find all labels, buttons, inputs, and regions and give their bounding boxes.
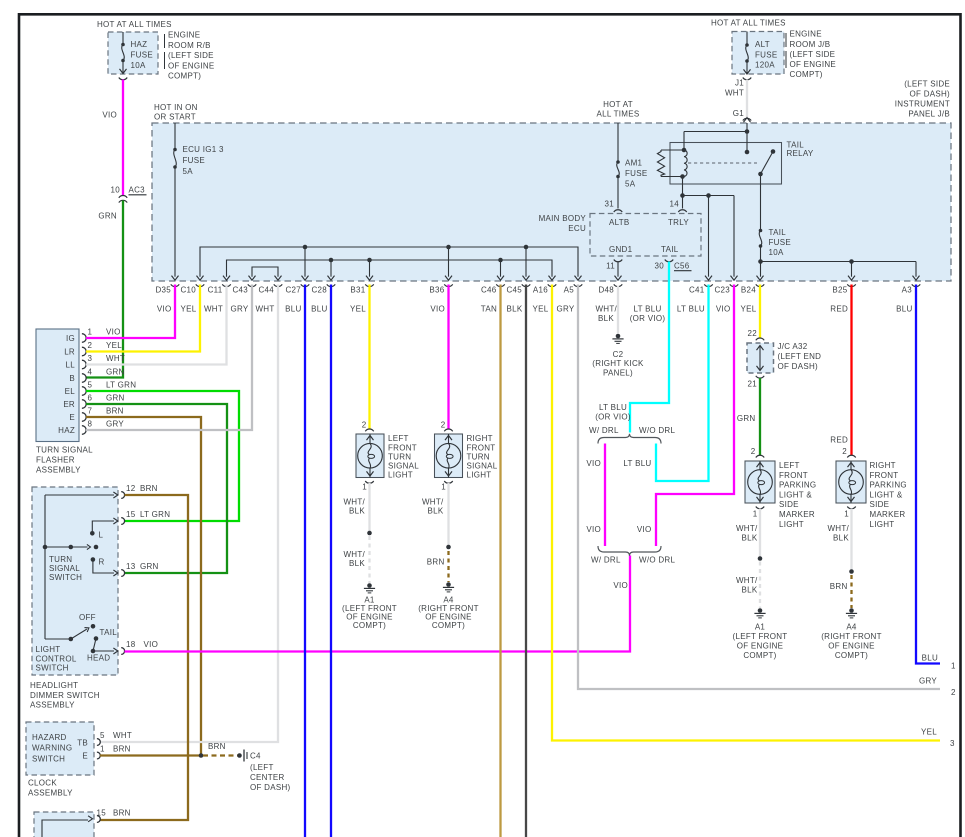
svg-text:FRONT: FRONT	[779, 471, 808, 480]
svg-text:HAZ: HAZ	[131, 40, 148, 49]
svg-text:B24: B24	[741, 286, 756, 295]
svg-text:J1: J1	[735, 79, 744, 88]
svg-text:BLK: BLK	[742, 534, 758, 543]
wire WHT/BLK left parking	[759, 509, 761, 557]
clock inner conductor	[42, 816, 93, 837]
svg-text:LR: LR	[64, 348, 75, 357]
wire YEL A16 out	[552, 285, 940, 741]
wire WHT/BLK right turn	[447, 483, 449, 545]
label A4 right turn	[418, 596, 479, 631]
connector C10	[180, 276, 204, 314]
svg-text:TAIL: TAIL	[769, 228, 787, 237]
svg-text:OF DASH): OF DASH)	[778, 362, 819, 371]
label W/O DRL lower	[639, 556, 675, 565]
svg-text:C11: C11	[208, 286, 223, 295]
svg-text:OF ENGINE: OF ENGINE	[737, 642, 784, 651]
svg-text:PARKING: PARKING	[779, 481, 816, 490]
connector D35	[155, 276, 179, 314]
svg-text:BRN: BRN	[106, 406, 124, 415]
label WHT/BLK right parking	[827, 524, 849, 543]
svg-text:LT BLU: LT BLU	[623, 459, 651, 468]
flasher box	[36, 329, 79, 442]
svg-text:BRN: BRN	[140, 484, 158, 493]
svg-text:5: 5	[88, 380, 93, 389]
junction connector J/C A32 box	[747, 343, 774, 373]
svg-text:COMPT): COMPT)	[743, 651, 776, 660]
label HAZ FUSE 10A	[131, 40, 153, 70]
wire VIO B36 to right turn light	[447, 285, 449, 429]
svg-text:C10: C10	[180, 286, 196, 295]
svg-text:YEL: YEL	[350, 305, 366, 314]
wire WHT/BLK dashed left parking	[759, 562, 761, 609]
label ALTB	[609, 218, 630, 227]
label WHT/BLK left parking	[736, 524, 758, 543]
svg-text:SIDE: SIDE	[779, 500, 799, 509]
lamp left front parking light	[745, 461, 775, 503]
label LEFT CENTER OF DASH	[250, 763, 291, 792]
svg-text:ER: ER	[63, 400, 75, 409]
label HAZARD WARNING SWITCH	[32, 733, 72, 764]
relay coil bottom link	[661, 174, 685, 179]
svg-text:C44: C44	[258, 286, 274, 295]
svg-text:RELAY: RELAY	[787, 149, 814, 158]
svg-text:COMPT): COMPT)	[835, 651, 868, 660]
bridge C43-C44	[252, 267, 278, 277]
svg-text:3: 3	[950, 739, 955, 748]
svg-text:WHT: WHT	[204, 305, 223, 314]
svg-text:YEL: YEL	[921, 728, 937, 737]
label 3 out	[950, 739, 955, 748]
svg-text:C4: C4	[250, 752, 261, 761]
label LIGHT CONTROL SWITCH	[36, 645, 77, 673]
label W/ DRL lower	[591, 556, 621, 565]
wire VIO C23 branch	[656, 285, 734, 547]
wire GRN flasher-ER to t/s switch 13	[86, 404, 227, 573]
svg-text:WHT/: WHT/	[736, 576, 758, 585]
label WHT/BLK D48	[595, 305, 617, 324]
label BRN right parking	[830, 582, 848, 591]
svg-text:AM1: AM1	[625, 159, 643, 168]
pin 2 left parking	[751, 447, 764, 458]
wire BLU C28	[330, 285, 332, 837]
svg-text:E: E	[82, 752, 88, 761]
pin 1 right turn light	[441, 481, 452, 492]
svg-text:BLK: BLK	[349, 507, 365, 516]
svg-text:8: 8	[88, 419, 93, 428]
svg-text:GRY: GRY	[556, 305, 574, 314]
svg-text:VIO: VIO	[144, 640, 159, 649]
svg-text:GRN: GRN	[106, 367, 125, 376]
svg-text:SWITCH: SWITCH	[36, 664, 69, 673]
dimmer switch box	[32, 487, 118, 675]
wire WHT J1 to G1	[746, 80, 748, 118]
svg-text:(LEFT SIDE: (LEFT SIDE	[168, 51, 214, 60]
flasher pin 8 HAZ	[58, 419, 124, 435]
svg-text:2: 2	[362, 421, 367, 430]
t/s switch blade	[43, 544, 99, 549]
svg-text:GRY: GRY	[230, 305, 248, 314]
junction dots bus1	[303, 245, 529, 250]
svg-text:AC3: AC3	[129, 186, 146, 195]
label ECU IG1 3 FUSE 5A	[183, 145, 224, 176]
label VIO w/DRL upper	[586, 459, 601, 468]
fuse TAIL 10A	[759, 229, 763, 248]
wire AM1 feed	[617, 123, 619, 209]
connector C11	[204, 276, 231, 314]
svg-text:1: 1	[88, 327, 93, 336]
bus2 drop B31	[369, 260, 371, 277]
splice left turn	[367, 531, 372, 536]
J/C A32 internal arrow	[757, 346, 764, 371]
label VIO w/o DRL lower	[637, 525, 652, 534]
svg-text:FUSE: FUSE	[183, 156, 205, 165]
label HOT AT ALL TIMES (AM1)	[597, 100, 640, 119]
pin 1 right parking	[844, 507, 855, 519]
label GRN	[98, 212, 117, 221]
svg-text:CLOCK: CLOCK	[28, 779, 57, 788]
svg-text:C56: C56	[674, 262, 690, 271]
svg-text:BLU: BLU	[311, 305, 327, 314]
svg-text:WHT/: WHT/	[343, 550, 365, 559]
svg-text:FUSE: FUSE	[131, 51, 153, 60]
connector C43	[230, 276, 256, 314]
wire RED B25 to right parking light	[850, 285, 852, 456]
svg-text:A3: A3	[902, 286, 913, 295]
wire BRN pin12 to clock 15	[100, 495, 188, 820]
svg-text:A4: A4	[846, 623, 857, 632]
svg-text:B31: B31	[350, 286, 365, 295]
fuse HAZ 10A	[120, 32, 127, 74]
svg-text:COMPT): COMPT)	[168, 72, 201, 81]
svg-text:PANEL): PANEL)	[603, 369, 633, 378]
svg-text:(LEFT END: (LEFT END	[778, 352, 822, 361]
svg-text:3: 3	[88, 354, 93, 363]
svg-text:WHT: WHT	[113, 731, 132, 740]
wire YEL B24 to J/C A32	[759, 285, 761, 338]
wire BRN hazard-E	[100, 754, 201, 756]
connector J1	[735, 78, 751, 88]
wire LT BLU C56 to DRL split	[630, 262, 669, 433]
connector C45	[506, 276, 530, 314]
label CLOCK ASSEMBLY	[28, 779, 73, 798]
svg-text:VIO: VIO	[586, 459, 601, 468]
svg-text:SIGNAL: SIGNAL	[467, 462, 498, 471]
label ALT FUSE 120A	[755, 40, 777, 70]
svg-text:ALL TIMES: ALL TIMES	[597, 110, 640, 119]
svg-text:10A: 10A	[769, 248, 784, 257]
svg-text:ECU IG1 3: ECU IG1 3	[183, 145, 224, 154]
bus1 drop B36	[448, 247, 450, 277]
bus2 drop C28	[330, 260, 332, 277]
label VIO	[102, 111, 117, 120]
pin TB	[77, 731, 132, 747]
svg-text:ECU: ECU	[568, 224, 586, 233]
svg-text:FUSE: FUSE	[769, 238, 791, 247]
svg-text:LT BLU: LT BLU	[677, 305, 705, 314]
svg-text:(LEFT SIDE: (LEFT SIDE	[790, 50, 836, 59]
label HOT AT ALL TIMES left	[97, 20, 172, 29]
svg-text:BLK: BLK	[742, 586, 758, 595]
svg-text:YEL: YEL	[181, 305, 197, 314]
label 1 out	[951, 662, 956, 671]
label TURN SIGNAL SWITCH	[49, 555, 82, 582]
svg-text:14: 14	[670, 200, 680, 209]
connector 10 AC3	[111, 186, 147, 203]
connector below HAZ fuse	[119, 78, 127, 80]
lamp left front turn signal light	[356, 434, 384, 478]
svg-text:GRN: GRN	[98, 212, 117, 221]
wire to pin 18	[93, 648, 118, 654]
svg-text:FLASHER: FLASHER	[36, 456, 75, 465]
svg-text:1: 1	[100, 745, 105, 754]
label LEFT FRONT PARKING LIGHT & SIDE MARKER LIGHT	[779, 461, 816, 529]
svg-text:ALTB: ALTB	[609, 218, 630, 227]
svg-text:ALT: ALT	[755, 40, 770, 49]
wire BRN dashed to C4	[203, 754, 238, 756]
svg-text:PANEL J/B: PANEL J/B	[908, 110, 950, 119]
svg-text:DIMMER SWITCH: DIMMER SWITCH	[30, 691, 100, 700]
svg-text:(OR VIO): (OR VIO)	[630, 314, 666, 323]
wire relay-coil branch line	[683, 193, 735, 198]
svg-text:VIO: VIO	[106, 327, 121, 336]
relay mechanical link	[688, 162, 757, 164]
ground A1 left parking	[754, 608, 765, 618]
svg-text:VIO: VIO	[637, 525, 652, 534]
svg-text:C45: C45	[506, 286, 522, 295]
contact HEAD	[87, 639, 110, 663]
svg-text:SWITCH: SWITCH	[49, 573, 82, 582]
connector A16	[533, 276, 557, 314]
svg-text:WHT: WHT	[106, 354, 125, 363]
label RED right parking	[830, 436, 848, 445]
drop to C23	[733, 196, 735, 277]
brace DRL split	[598, 434, 661, 444]
pin 1 left turn light	[362, 481, 373, 492]
svg-text:WHT/: WHT/	[343, 498, 365, 507]
flasher pin 6 ER	[63, 393, 124, 409]
svg-text:A5: A5	[564, 286, 575, 295]
svg-text:2: 2	[951, 688, 956, 697]
svg-text:BLK: BLK	[349, 559, 365, 568]
svg-text:10A: 10A	[131, 61, 146, 70]
relay box TAIL RELAY	[670, 143, 782, 185]
svg-text:10: 10	[111, 186, 121, 195]
junction dots bus2	[329, 258, 503, 263]
label TAIL FUSE 10A	[769, 228, 791, 257]
pin 30 TAIL C56	[655, 260, 692, 271]
pin 14 TRLY	[670, 200, 687, 213]
connector C28	[311, 276, 335, 314]
flasher pin 4 B	[69, 367, 124, 383]
label YEL out	[921, 728, 937, 737]
connector B24	[741, 276, 765, 314]
label GRN parking	[737, 414, 756, 423]
svg-text:5: 5	[100, 731, 105, 740]
svg-text:RIGHT: RIGHT	[467, 434, 493, 443]
fuse ALT 120A	[744, 32, 751, 75]
splice right parking	[849, 569, 854, 574]
ground A4 right parking	[846, 608, 857, 618]
svg-text:W/ DRL: W/ DRL	[589, 426, 619, 435]
wire GRY flasher-HAZ to C43	[86, 285, 252, 431]
label TRLY	[668, 218, 689, 227]
label GRY out	[919, 677, 937, 686]
light control feed	[45, 637, 73, 642]
connector C46	[481, 276, 505, 314]
svg-text:GRN: GRN	[140, 562, 159, 571]
svg-text:GRY: GRY	[919, 677, 937, 686]
svg-text:5A: 5A	[183, 167, 194, 176]
svg-text:TRLY: TRLY	[668, 218, 689, 227]
label ENGINE ROOM R/B	[168, 31, 215, 81]
svg-text:OFF: OFF	[79, 613, 96, 622]
pin 15 BRN clock	[97, 809, 131, 823]
svg-text:RIGHT: RIGHT	[870, 461, 896, 470]
svg-text:C2: C2	[613, 350, 624, 359]
svg-text:(RIGHT FRONT: (RIGHT FRONT	[821, 632, 882, 641]
pin 12	[121, 484, 158, 499]
drop to A3	[915, 262, 917, 277]
connector C41	[677, 276, 713, 314]
svg-text:C28: C28	[311, 286, 327, 295]
svg-text:OF DASH): OF DASH)	[250, 783, 291, 792]
fuse AM1 5A	[616, 160, 620, 178]
hazard switch box	[26, 722, 94, 775]
lamp right front turn signal light	[435, 434, 463, 478]
label MAIN BODY ECU	[539, 214, 587, 233]
svg-text:YEL: YEL	[533, 305, 549, 314]
wire WHT/BLK right parking	[850, 509, 852, 570]
svg-text:J/C A32: J/C A32	[778, 342, 808, 351]
svg-text:D48: D48	[598, 286, 614, 295]
svg-text:WARNING: WARNING	[32, 744, 72, 753]
svg-text:WHT/: WHT/	[827, 524, 849, 533]
svg-text:WHT: WHT	[255, 305, 274, 314]
connector C27	[285, 276, 309, 314]
svg-text:C46: C46	[481, 286, 497, 295]
label LT BLU (OR VIO) DRL	[595, 403, 631, 422]
pin E	[82, 745, 130, 761]
wire ECU-IG1 feed	[174, 123, 176, 277]
wire GRN J/C to left parking light	[759, 378, 761, 455]
svg-text:LIGHT &: LIGHT &	[779, 490, 812, 499]
svg-text:LIGHT: LIGHT	[388, 471, 413, 480]
brace DRL merge	[598, 546, 661, 556]
pin 11 GND1	[606, 260, 622, 271]
wire relay switch out	[760, 174, 762, 277]
svg-text:TURN: TURN	[49, 555, 72, 564]
junction block Instrument Panel J/B	[152, 123, 951, 281]
pin 21 J/C A32	[748, 376, 765, 389]
label LT BLU w/o DRL	[623, 459, 651, 468]
wire LT BLU C41 branch	[656, 285, 709, 482]
svg-text:12: 12	[126, 484, 136, 493]
svg-text:OF ENGINE: OF ENGINE	[828, 642, 875, 651]
svg-text:C27: C27	[285, 286, 301, 295]
svg-text:IG: IG	[66, 334, 75, 343]
svg-text:HOT IN ON: HOT IN ON	[154, 103, 198, 112]
lamp right front parking light	[836, 461, 866, 503]
pin 2 left turn light	[362, 421, 374, 432]
label GND1	[609, 245, 633, 254]
bus line 2 (C11-A16)	[227, 260, 553, 277]
drop to C41	[708, 196, 710, 277]
wire WHT/BLK D48 to C2	[617, 286, 619, 333]
splice left parking	[758, 556, 763, 561]
svg-text:HAZ: HAZ	[58, 426, 75, 435]
svg-text:(RIGHT KICK: (RIGHT KICK	[592, 359, 644, 368]
svg-text:VIO: VIO	[613, 581, 628, 590]
svg-text:BLK: BLK	[507, 305, 523, 314]
wire VIO HAZ-fuse to AC3	[122, 80, 124, 196]
svg-text:GRN: GRN	[106, 393, 125, 402]
svg-text:D35: D35	[155, 286, 171, 295]
drop to B25	[851, 262, 853, 277]
svg-text:FUSE: FUSE	[755, 51, 777, 60]
svg-text:1: 1	[441, 483, 446, 492]
svg-text:WHT: WHT	[725, 89, 744, 98]
svg-text:OF DASH): OF DASH)	[910, 90, 951, 99]
svg-text:7: 7	[88, 406, 93, 415]
svg-text:ENGINE: ENGINE	[168, 31, 200, 40]
wire WHT flasher-LL to C11	[86, 285, 227, 365]
label RIGHT FRONT TURN SIGNAL LIGHT	[467, 434, 498, 480]
svg-text:(LEFT: (LEFT	[250, 763, 274, 772]
pin 31 ALTB	[605, 200, 623, 213]
svg-text:MARKER: MARKER	[870, 510, 906, 519]
connector B31	[350, 276, 374, 314]
svg-text:SIDE: SIDE	[870, 500, 890, 509]
svg-text:18: 18	[126, 640, 136, 649]
svg-text:HOT AT: HOT AT	[603, 100, 633, 109]
label J/C A32	[778, 342, 822, 371]
svg-text:(LEFT FRONT: (LEFT FRONT	[733, 632, 788, 641]
svg-text:13: 13	[126, 562, 136, 571]
label TAIL RELAY	[787, 141, 814, 159]
svg-text:22: 22	[748, 329, 758, 338]
svg-text:HAZARD: HAZARD	[32, 733, 67, 742]
bracket Engine Room J/B	[785, 33, 787, 68]
svg-text:LIGHT: LIGHT	[779, 520, 804, 529]
pin 15	[121, 510, 170, 525]
svg-text:WHT/: WHT/	[422, 498, 444, 507]
label RIGHT FRONT PARKING LIGHT & SIDE MARKER LIGHT	[870, 461, 907, 529]
flasher pin 1 IG	[66, 327, 121, 343]
label A4 right parking	[821, 623, 882, 661]
svg-text:1: 1	[951, 662, 956, 671]
flasher pin 2 LR	[64, 341, 122, 357]
svg-text:4: 4	[88, 367, 93, 376]
svg-text:E: E	[69, 413, 75, 422]
flasher pin 3 LL	[66, 354, 126, 370]
pin 22 J/C A32	[748, 329, 765, 340]
ground A4 right turn	[443, 582, 454, 592]
svg-text:RED: RED	[830, 436, 848, 445]
svg-text:2: 2	[751, 447, 756, 456]
wire TRLY to pin14	[680, 177, 685, 209]
wire VIO w/DRL branch	[604, 444, 606, 547]
svg-text:INSTRUMENT: INSTRUMENT	[895, 100, 950, 109]
label VIO below merge	[613, 581, 628, 590]
svg-text:BLK: BLK	[833, 534, 849, 543]
wire WHT/BLK dashed to A1	[368, 536, 370, 583]
label W/ DRL upper	[589, 426, 619, 435]
label OFF	[79, 613, 96, 622]
junction block Engine Room J/B	[732, 32, 784, 75]
svg-text:TAIL: TAIL	[100, 628, 118, 637]
svg-text:2: 2	[842, 447, 847, 456]
svg-text:YEL: YEL	[741, 305, 757, 314]
